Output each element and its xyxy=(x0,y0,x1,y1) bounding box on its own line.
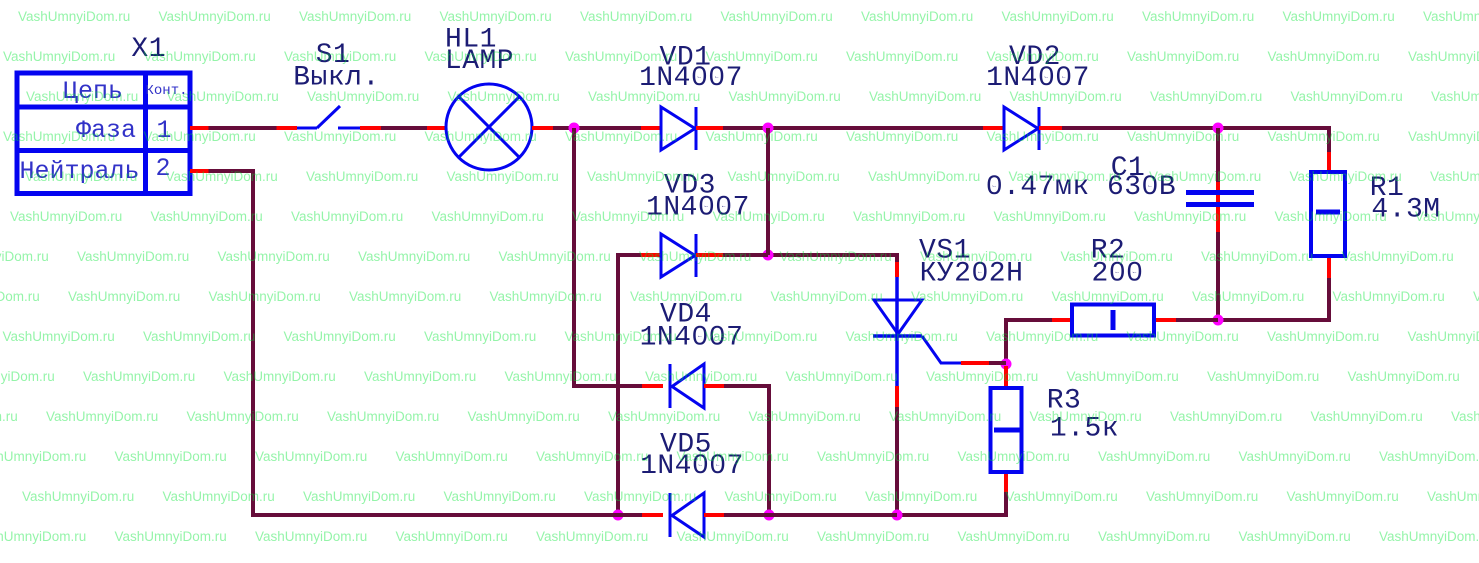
svg-text:VashUmnyiDom.ru: VashUmnyiDom.ru xyxy=(10,209,122,224)
node junction dot C1/R1/R2 xyxy=(1213,315,1224,326)
svg-text:VashUmnyiDom.ru: VashUmnyiDom.ru xyxy=(580,9,692,24)
wire vertical from top node to VD3 node xyxy=(766,128,770,255)
svg-text:VashUmnyiDom.ru: VashUmnyiDom.ru xyxy=(780,249,892,264)
svg-text:VashUmnyiDom.ru: VashUmnyiDom.ru xyxy=(1408,329,1479,344)
svg-text:VashUmnyiDom.ru: VashUmnyiDom.ru xyxy=(1149,169,1261,184)
node junction dot VD1/VD3 xyxy=(763,123,774,134)
connector X1 table xyxy=(17,73,190,194)
wire VS1 cathode to bus xyxy=(895,386,899,517)
svg-text:VashUmnyiDom.ru: VashUmnyiDom.ru xyxy=(868,169,980,184)
svg-text:VashUmnyiDom.ru: VashUmnyiDom.ru xyxy=(786,369,898,384)
svg-text:VashUmnyiDom.ru: VashUmnyiDom.ru xyxy=(448,89,560,104)
svg-text:VashUmnyiDom.ru: VashUmnyiDom.ru xyxy=(144,129,256,144)
svg-text:VashUmnyiDom.ru: VashUmnyiDom.ru xyxy=(865,489,977,504)
svg-text:VashUmnyiDom.ru: VashUmnyiDom.ru xyxy=(1427,489,1479,504)
svg-text:VashUmnyiDom.ru: VashUmnyiDom.ru xyxy=(1201,249,1313,264)
svg-text:VashUmnyiDom.ru: VashUmnyiDom.ru xyxy=(0,369,55,384)
svg-text:VashUmnyiDom.ru: VashUmnyiDom.ru xyxy=(0,449,86,464)
svg-text:VashUmnyiDom.ru: VashUmnyiDom.ru xyxy=(1002,9,1114,24)
svg-text:VashUmnyiDom.ru: VashUmnyiDom.ru xyxy=(911,289,1023,304)
svg-text:VashUmnyiDom.ru: VashUmnyiDom.ru xyxy=(1423,9,1479,24)
svg-text:VashUmnyiDom.ru: VashUmnyiDom.ru xyxy=(1009,169,1121,184)
svg-text:VashUmnyiDom.ru: VashUmnyiDom.ru xyxy=(958,529,1070,544)
svg-text:VashUmnyiDom.ru: VashUmnyiDom.ru xyxy=(1142,9,1254,24)
svg-text:VashUmnyiDom.ru: VashUmnyiDom.ru xyxy=(3,49,115,64)
svg-text:VashUmnyiDom.ru: VashUmnyiDom.ru xyxy=(1192,289,1304,304)
wire left branch from top node down to VD4 xyxy=(572,128,663,388)
svg-text:VashUmnyiDom.ru: VashUmnyiDom.ru xyxy=(3,129,115,144)
svg-text:VashUmnyiDom.ru: VashUmnyiDom.ru xyxy=(284,129,396,144)
svg-text:VashUmnyiDom.ru: VashUmnyiDom.ru xyxy=(22,489,134,504)
svg-text:VashUmnyiDom.ru: VashUmnyiDom.ru xyxy=(306,169,418,184)
svg-text:VashUmnyiDom.ru: VashUmnyiDom.ru xyxy=(218,249,330,264)
wire VD3/anode node to VS1 xyxy=(768,253,899,277)
svg-text:VashUmnyiDom.ru: VashUmnyiDom.ru xyxy=(499,249,611,264)
svg-text:VashUmnyiDom.ru: VashUmnyiDom.ru xyxy=(144,49,256,64)
svg-text:VashUmnyiDom.ru: VashUmnyiDom.ru xyxy=(853,209,965,224)
svg-text:VashUmnyiDom.ru: VashUmnyiDom.ru xyxy=(425,49,537,64)
wire VD1 to VD2 xyxy=(696,126,1004,130)
svg-text:VashUmnyiDom.ru: VashUmnyiDom.ru xyxy=(713,209,825,224)
svg-text:VashUmnyiDom.ru: VashUmnyiDom.ru xyxy=(358,249,470,264)
svg-text:VashUmnyiDom.ru: VashUmnyiDom.ru xyxy=(0,289,40,304)
node junction dot VD4 lead on bus xyxy=(764,510,775,521)
svg-text:VashUmnyiDom.ru: VashUmnyiDom.ru xyxy=(587,169,699,184)
svg-text:VashUmnyiDom.ru: VashUmnyiDom.ru xyxy=(536,449,648,464)
resistor R3 xyxy=(991,388,1022,472)
svg-text:VashUmnyiDom.ru: VashUmnyiDom.ru xyxy=(846,129,958,144)
wire HL1 to VD1 xyxy=(532,126,661,130)
wire R3 bottom to bus xyxy=(897,474,1008,517)
svg-text:VashUmnyiDom.ru: VashUmnyiDom.ru xyxy=(1150,89,1262,104)
svg-text:VashUmnyiDom.ru: VashUmnyiDom.ru xyxy=(536,529,648,544)
svg-text:VashUmnyiDom.ru: VashUmnyiDom.ru xyxy=(1207,369,1319,384)
svg-text:VashUmnyiDom.ru: VashUmnyiDom.ru xyxy=(705,329,817,344)
svg-text:VashUmnyiDom.ru: VashUmnyiDom.ru xyxy=(1268,129,1380,144)
svg-text:VashUmnyiDom.ru: VashUmnyiDom.ru xyxy=(1010,89,1122,104)
svg-text:VashUmnyiDom.ru: VashUmnyiDom.ru xyxy=(677,449,789,464)
svg-text:VashUmnyiDom.ru: VashUmnyiDom.ru xyxy=(1239,529,1351,544)
resistor R2 xyxy=(1072,305,1154,336)
svg-text:VashUmnyiDom.ru: VashUmnyiDom.ru xyxy=(26,89,138,104)
svg-text:VashUmnyiDom.ru: VashUmnyiDom.ru xyxy=(1287,489,1399,504)
svg-text:VashUmnyiDom.ru: VashUmnyiDom.ru xyxy=(0,409,18,424)
wire VD3 right lead xyxy=(696,253,768,257)
svg-text:VashUmnyiDom.ru: VashUmnyiDom.ru xyxy=(1170,409,1282,424)
svg-text:VashUmnyiDom.ru: VashUmnyiDom.ru xyxy=(255,529,367,544)
svg-text:VashUmnyiDom.ru: VashUmnyiDom.ru xyxy=(1098,449,1210,464)
wire C1 top lead xyxy=(1216,128,1220,232)
node junction dot VD2/C1 xyxy=(1213,123,1224,134)
wire X1 pin1 to S1 xyxy=(190,126,297,130)
wire X1 pin2 down and along bottom bus xyxy=(190,169,618,517)
svg-text:VashUmnyiDom.ru: VashUmnyiDom.ru xyxy=(1431,89,1479,104)
svg-text:VashUmnyiDom.ru: VashUmnyiDom.ru xyxy=(303,489,415,504)
svg-text:VashUmnyiDom.ru: VashUmnyiDom.ru xyxy=(77,249,189,264)
svg-text:VashUmnyiDom.ru: VashUmnyiDom.ru xyxy=(255,449,367,464)
svg-text:VashUmnyiDom.ru: VashUmnyiDom.ru xyxy=(68,289,180,304)
svg-text:VashUmnyiDom.ru: VashUmnyiDom.ru xyxy=(725,489,837,504)
svg-text:VashUmnyiDom.ru: VashUmnyiDom.ru xyxy=(224,369,336,384)
svg-text:VashUmnyiDom.ru: VashUmnyiDom.ru xyxy=(209,289,321,304)
svg-text:VashUmnyiDom.ru: VashUmnyiDom.ru xyxy=(18,9,130,24)
wire R2 right lead xyxy=(1156,318,1218,322)
svg-text:VashUmnyiDom.ru: VashUmnyiDom.ru xyxy=(749,409,861,424)
svg-text:VashUmnyiDom.ru: VashUmnyiDom.ru xyxy=(817,529,929,544)
svg-text:VashUmnyiDom.ru: VashUmnyiDom.ru xyxy=(846,329,958,344)
svg-text:VashUmnyiDom.ru: VashUmnyiDom.ru xyxy=(584,489,696,504)
node junction dot VD3 branch on bus xyxy=(613,510,624,521)
svg-text:VashUmnyiDom.ru: VashUmnyiDom.ru xyxy=(1348,369,1460,384)
wire VD3 left branch xyxy=(616,253,661,517)
svg-text:VashUmnyiDom.ru: VashUmnyiDom.ru xyxy=(159,9,271,24)
node junction dot VD3/VS1 anode xyxy=(763,250,774,261)
svg-text:VashUmnyiDom.ru: VashUmnyiDom.ru xyxy=(1473,289,1479,304)
svg-text:VashUmnyiDom.ru: VashUmnyiDom.ru xyxy=(187,409,299,424)
svg-text:VashUmnyiDom.ru: VashUmnyiDom.ru xyxy=(889,409,1001,424)
svg-text:VashUmnyiDom.ru: VashUmnyiDom.ru xyxy=(1052,289,1164,304)
svg-text:VashUmnyiDom.ru: VashUmnyiDom.ru xyxy=(166,169,278,184)
svg-text:VashUmnyiDom.ru: VashUmnyiDom.ru xyxy=(706,49,818,64)
svg-text:VashUmnyiDom.ru: VashUmnyiDom.ru xyxy=(1268,49,1380,64)
svg-text:VashUmnyiDom.ru: VashUmnyiDom.ru xyxy=(1291,89,1403,104)
svg-text:VashUmnyiDom.ru: VashUmnyiDom.ru xyxy=(396,529,508,544)
svg-text:VashUmnyiDom.ru: VashUmnyiDom.ru xyxy=(3,329,115,344)
capacitor C1 xyxy=(1186,190,1254,207)
svg-text:VashUmnyiDom.ru: VashUmnyiDom.ru xyxy=(1006,489,1118,504)
svg-text:VashUmnyiDom.ru: VashUmnyiDom.ru xyxy=(565,329,677,344)
svg-text:VashUmnyiDom.ru: VashUmnyiDom.ru xyxy=(444,489,556,504)
svg-text:VashUmnyiDom.ru: VashUmnyiDom.ru xyxy=(151,209,263,224)
svg-text:VashUmnyiDom.ru: VashUmnyiDom.ru xyxy=(447,169,559,184)
node junction dot at HL1/VD1 branch xyxy=(569,123,580,134)
svg-text:VashUmnyiDom.ru: VashUmnyiDom.ru xyxy=(327,409,439,424)
svg-text:VashUmnyiDom.ru: VashUmnyiDom.ru xyxy=(608,409,720,424)
svg-text:VashUmnyiDom.ru: VashUmnyiDom.ru xyxy=(986,329,1098,344)
svg-text:VashUmnyiDom.ru: VashUmnyiDom.ru xyxy=(861,9,973,24)
svg-text:VashUmnyiDom.ru: VashUmnyiDom.ru xyxy=(994,209,1106,224)
svg-text:VashUmnyiDom.ru: VashUmnyiDom.ru xyxy=(1311,409,1423,424)
svg-text:VashUmnyiDom.ru: VashUmnyiDom.ru xyxy=(645,369,757,384)
svg-text:VashUmnyiDom.ru: VashUmnyiDom.ru xyxy=(706,129,818,144)
svg-text:VashUmnyiDom.ru: VashUmnyiDom.ru xyxy=(115,529,227,544)
svg-text:VashUmnyiDom.ru: VashUmnyiDom.ru xyxy=(424,329,536,344)
svg-text:VashUmnyiDom.ru: VashUmnyiDom.ru xyxy=(0,529,86,544)
svg-text:VashUmnyiDom.ru: VashUmnyiDom.ru xyxy=(1342,249,1454,264)
diode VD3 xyxy=(661,234,696,277)
wire R1 bottom to node xyxy=(1218,258,1331,322)
svg-text:VashUmnyiDom.ru: VashUmnyiDom.ru xyxy=(1061,249,1173,264)
svg-text:VashUmnyiDom.ru: VashUmnyiDom.ru xyxy=(926,369,1038,384)
node junction dot gate/R2/R3 xyxy=(1001,359,1012,370)
svg-text:VashUmnyiDom.ru: VashUmnyiDom.ru xyxy=(1127,49,1239,64)
svg-text:VashUmnyiDom.ru: VashUmnyiDom.ru xyxy=(25,169,137,184)
svg-text:VashUmnyiDom.ru: VashUmnyiDom.ru xyxy=(721,9,833,24)
diode VD4 xyxy=(670,364,704,408)
wire VS1 gate to node xyxy=(961,361,1006,365)
wire VD5 right along bus xyxy=(704,513,897,517)
svg-text:VashUmnyiDom.ru: VashUmnyiDom.ru xyxy=(1408,49,1479,64)
resistor R1 xyxy=(1311,172,1345,256)
svg-text:VashUmnyiDom.ru: VashUmnyiDom.ru xyxy=(572,209,684,224)
svg-text:VashUmnyiDom.ru: VashUmnyiDom.ru xyxy=(1451,409,1479,424)
svg-text:VashUmnyiDom.ru: VashUmnyiDom.ru xyxy=(440,9,552,24)
svg-text:VashUmnyiDom.ru: VashUmnyiDom.ru xyxy=(565,129,677,144)
wire R3 top lead xyxy=(1004,366,1008,386)
svg-text:VashUmnyiDom.ru: VashUmnyiDom.ru xyxy=(425,129,537,144)
diode VD5 xyxy=(670,493,704,537)
svg-text:VashUmnyiDom.ru: VashUmnyiDom.ru xyxy=(1283,9,1395,24)
svg-text:VashUmnyiDom.ru: VashUmnyiDom.ru xyxy=(1134,209,1246,224)
svg-text:VashUmnyiDom.ru: VashUmnyiDom.ru xyxy=(468,409,580,424)
svg-text:VashUmnyiDom.ru: VashUmnyiDom.ru xyxy=(987,49,1099,64)
svg-text:VashUmnyiDom.ru: VashUmnyiDom.ru xyxy=(83,369,195,384)
svg-text:VashUmnyiDom.ru: VashUmnyiDom.ru xyxy=(299,9,411,24)
svg-text:VashUmnyiDom.ru: VashUmnyiDom.ru xyxy=(432,209,544,224)
svg-text:VashUmnyiDom.ru: VashUmnyiDom.ru xyxy=(1146,489,1258,504)
thyristor VS1 xyxy=(873,277,961,386)
svg-text:VashUmnyiDom.ru: VashUmnyiDom.ru xyxy=(0,249,49,264)
svg-text:VashUmnyiDom.ru: VashUmnyiDom.ru xyxy=(1430,169,1479,184)
svg-text:VashUmnyiDom.ru: VashUmnyiDom.ru xyxy=(364,369,476,384)
svg-text:VashUmnyiDom.ru: VashUmnyiDom.ru xyxy=(987,129,1099,144)
svg-text:VashUmnyiDom.ru: VashUmnyiDom.ru xyxy=(284,329,396,344)
wire bus to VD5 left xyxy=(618,513,663,517)
wire S1 to HL1 xyxy=(360,126,446,130)
svg-text:VashUmnyiDom.ru: VashUmnyiDom.ru xyxy=(639,249,751,264)
svg-text:VashUmnyiDom.ru: VashUmnyiDom.ru xyxy=(588,89,700,104)
svg-text:VashUmnyiDom.ru: VashUmnyiDom.ru xyxy=(1067,369,1179,384)
svg-text:VashUmnyiDom.ru: VashUmnyiDom.ru xyxy=(677,529,789,544)
svg-text:VashUmnyiDom.ru: VashUmnyiDom.ru xyxy=(505,369,617,384)
svg-text:VashUmnyiDom.ru: VashUmnyiDom.ru xyxy=(729,89,841,104)
svg-text:VashUmnyiDom.ru: VashUmnyiDom.ru xyxy=(115,449,227,464)
diode VD2 xyxy=(1004,107,1039,150)
wire C1 bottom lead xyxy=(1216,232,1220,320)
wire VD4 right lead down to bus xyxy=(704,386,771,517)
svg-text:VashUmnyiDom.ru: VashUmnyiDom.ru xyxy=(1127,129,1239,144)
svg-text:VashUmnyiDom.ru: VashUmnyiDom.ru xyxy=(1415,209,1479,224)
svg-text:VashUmnyiDom.ru: VashUmnyiDom.ru xyxy=(630,289,742,304)
svg-text:VashUmnyiDom.ru: VashUmnyiDom.ru xyxy=(163,489,275,504)
svg-text:VashUmnyiDom.ru: VashUmnyiDom.ru xyxy=(490,289,602,304)
wire R2 left lead down to gate node xyxy=(1004,318,1070,364)
wire VD2 to R1 top corner xyxy=(1039,126,1331,170)
svg-text:VashUmnyiDom.ru: VashUmnyiDom.ru xyxy=(817,449,929,464)
svg-text:VashUmnyiDom.ru: VashUmnyiDom.ru xyxy=(1030,409,1142,424)
svg-text:VashUmnyiDom.ru: VashUmnyiDom.ru xyxy=(1379,449,1479,464)
svg-text:VashUmnyiDom.ru: VashUmnyiDom.ru xyxy=(1127,329,1239,344)
svg-text:VashUmnyiDom.ru: VashUmnyiDom.ru xyxy=(396,449,508,464)
diode VD1 xyxy=(661,107,696,150)
node junction dot VS1 cathode on bus xyxy=(892,510,903,521)
svg-text:VashUmnyiDom.ru: VashUmnyiDom.ru xyxy=(284,49,396,64)
svg-text:VashUmnyiDom.ru: VashUmnyiDom.ru xyxy=(167,89,279,104)
svg-text:VashUmnyiDom.ru: VashUmnyiDom.ru xyxy=(1408,129,1479,144)
svg-text:VashUmnyiDom.ru: VashUmnyiDom.ru xyxy=(1379,529,1479,544)
svg-text:VashUmnyiDom.ru: VashUmnyiDom.ru xyxy=(1267,329,1379,344)
svg-text:VashUmnyiDom.ru: VashUmnyiDom.ru xyxy=(1275,209,1387,224)
lamp HL1 xyxy=(446,84,532,170)
svg-text:VashUmnyiDom.ru: VashUmnyiDom.ru xyxy=(143,329,255,344)
svg-text:VashUmnyiDom.ru: VashUmnyiDom.ru xyxy=(1290,169,1402,184)
svg-text:VashUmnyiDom.ru: VashUmnyiDom.ru xyxy=(1333,289,1445,304)
svg-text:VashUmnyiDom.ru: VashUmnyiDom.ru xyxy=(1098,529,1210,544)
svg-text:VashUmnyiDom.ru: VashUmnyiDom.ru xyxy=(307,89,419,104)
svg-text:VashUmnyiDom.ru: VashUmnyiDom.ru xyxy=(958,449,1070,464)
svg-text:VashUmnyiDom.ru: VashUmnyiDom.ru xyxy=(728,169,840,184)
svg-text:VashUmnyiDom.ru: VashUmnyiDom.ru xyxy=(565,49,677,64)
svg-text:VashUmnyiDom.ru: VashUmnyiDom.ru xyxy=(869,89,981,104)
svg-text:VashUmnyiDom.ru: VashUmnyiDom.ru xyxy=(291,209,403,224)
switch S1 xyxy=(297,106,360,128)
svg-text:VashUmnyiDom.ru: VashUmnyiDom.ru xyxy=(771,289,883,304)
svg-text:VashUmnyiDom.ru: VashUmnyiDom.ru xyxy=(920,249,1032,264)
svg-text:VashUmnyiDom.ru: VashUmnyiDom.ru xyxy=(1239,449,1351,464)
svg-text:VashUmnyiDom.ru: VashUmnyiDom.ru xyxy=(46,409,158,424)
svg-text:VashUmnyiDom.ru: VashUmnyiDom.ru xyxy=(846,49,958,64)
svg-text:VashUmnyiDom.ru: VashUmnyiDom.ru xyxy=(349,289,461,304)
